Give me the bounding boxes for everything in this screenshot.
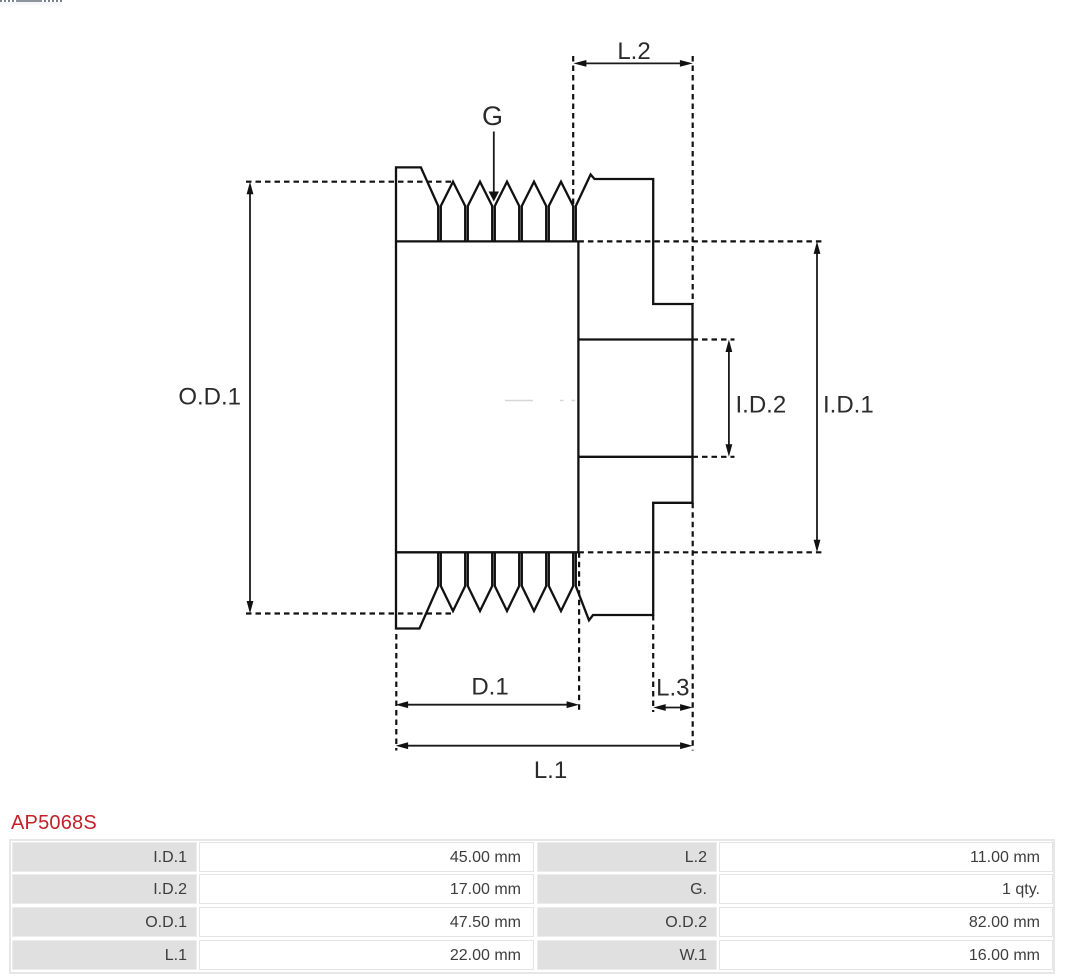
bore I.D.2 top line [578,338,692,340]
spec table [9,839,1055,974]
L.3 arrowheads [653,704,666,711]
I.D.2 top extension [693,338,735,340]
O.D.1 top extension [246,181,453,183]
L.2 arrowheads [573,60,586,67]
L.1 right extension [692,503,694,751]
I.D.1 dimension line [816,252,818,541]
G leader line [493,132,495,194]
svg-text:D.1: D.1 [471,674,508,701]
row 1 [12,842,197,872]
G arrowhead [489,192,499,202]
bore I.D.2 bottom line [578,456,692,458]
D.1 right extension [578,552,580,710]
I.D.2 bottom extension [693,456,735,458]
L.2 dimension line [585,62,681,64]
svg-text:G: G [482,101,503,131]
svg-text:L.1: L.1 [534,757,567,784]
L.2 left extension [572,56,574,205]
groove root baseline top [396,240,578,242]
row 2 [12,874,197,904]
centerline faint dash [505,400,575,402]
row 4 [12,940,197,970]
svg-text:O.D.1: O.D.1 [178,384,241,411]
body right edge [577,241,579,552]
pulley body outline with poly-V grooves [396,167,693,628]
I.D.1 top extension [578,240,822,242]
dimension arrows [250,63,817,745]
D.1 arrowheads [396,701,409,708]
I.D.2 dimension line [728,351,730,446]
L.3 left extension [652,615,654,712]
extension / projection dashed lines [246,56,822,751]
svg-text:L.2: L.2 [617,38,650,65]
L.2 right extension [692,56,694,304]
I.D.1 bottom extension [578,551,822,553]
svg-text:I.D.1: I.D.1 [823,392,874,419]
O.D.1 arrowheads [247,182,254,195]
row 3 [12,907,197,937]
L.3 dimension line [664,707,681,709]
O.D.1 dimension line [249,193,251,603]
I.D.1 arrowheads [814,241,821,254]
I.D.2 arrowheads [726,340,733,353]
svg-text:I.D.2: I.D.2 [736,392,787,419]
svg-text:L.3: L.3 [656,675,689,702]
D.1 / L.1 left extension [395,634,397,751]
L.1 dimension line [407,745,682,747]
groove root baseline bottom [396,551,578,553]
part number heading [11,812,97,835]
O.D.1 bottom extension [246,612,451,614]
L.1 arrowheads [396,742,409,749]
dimension labels [178,38,873,784]
D.1 dimension line [407,704,568,706]
cropped logo strip top-left [0,0,64,6]
